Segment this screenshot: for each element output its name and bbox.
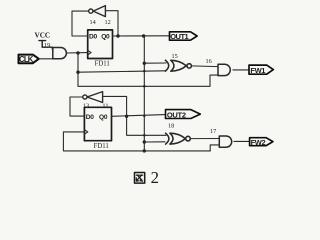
svg-text:VCC: VCC (35, 32, 51, 40)
output port FW2 (250, 138, 273, 146)
crossing blobs (scan ink) (143, 70, 146, 73)
input port CLK (19, 55, 39, 64)
svg-text:17: 17 (210, 128, 216, 135)
wire Q0A to XNOR2 lower input (144, 141, 165, 143)
XNOR gate U8 (pin 18) (166, 133, 191, 144)
wire feedback loop U2 right (106, 11, 119, 36)
wire Q0 column (net Q0A) (143, 36, 145, 151)
wire Q0B down to XNOR2 (127, 116, 166, 135)
svg-text:CLK: CLK (19, 55, 34, 64)
junction Q0B (125, 115, 128, 118)
svg-text:FD11: FD11 (95, 61, 110, 68)
wire Q0A to XNOR1 upper input (144, 62, 166, 64)
wire U9 out to FW2 (234, 140, 250, 142)
XNOR gate U4 (pin 15) (165, 60, 191, 71)
svg-text:13: 13 (83, 103, 89, 110)
inverter U7 (pins 13/11) (83, 92, 103, 103)
flip-flop U6 FD11 (bottom) (84, 107, 111, 140)
wire Q0(U2) to OUT1 (113, 35, 170, 37)
junction Q0A to XNOR2 (143, 140, 146, 143)
svg-text:15: 15 (172, 53, 178, 60)
svg-text:2: 2 (151, 168, 159, 187)
wire clock vertical down (77, 53, 79, 86)
wire feedback loop U2 left (72, 11, 89, 36)
svg-text:18: 18 (168, 123, 174, 130)
output port OUT1 (170, 32, 198, 40)
svg-text:OUT1: OUT1 (170, 32, 188, 41)
wire XNOR2 out to AND9 (net 17) (190, 138, 219, 140)
VCC symbol (39, 41, 52, 50)
junction clock node (76, 51, 79, 54)
clock chevron U2 (88, 50, 91, 55)
svg-text:D0: D0 (86, 114, 94, 121)
svg-text:Q0: Q0 (99, 114, 108, 121)
svg-text:11: 11 (102, 103, 108, 110)
flip-flop U2 FD11 (top) (88, 30, 113, 59)
wire CLK to AND U1 (39, 58, 53, 60)
junction Q0 feedback (116, 34, 119, 37)
inverter U3 (pins 14/12) (89, 6, 106, 17)
svg-text:19: 19 (44, 42, 51, 49)
caption figure 2 glyph (135, 173, 145, 184)
wire feedback loop U6 left (70, 97, 84, 116)
svg-text:12: 12 (105, 19, 111, 26)
AND gate U5 (FW1 gate) (218, 64, 230, 75)
wire Q0(U6) to OUT2 (112, 115, 166, 117)
wire U1 output to FF1 clock (67, 52, 88, 54)
svg-text:D0: D0 (89, 34, 97, 41)
output port FW1 (249, 65, 273, 74)
output port OUT2 (166, 110, 201, 119)
junction Q0A to XNOR1 (143, 62, 146, 65)
AND gate U9 (FW2 gate) (219, 136, 231, 147)
svg-text:Q0: Q0 (101, 34, 110, 41)
clock chevron U6 (84, 130, 87, 135)
svg-text:14: 14 (90, 19, 96, 26)
svg-text:FW1: FW1 (250, 66, 265, 75)
AND gate U1 (clock gate) (53, 48, 67, 59)
wire clock bus to AND2 (78, 75, 218, 86)
wire U5 out to FW1 (233, 69, 249, 71)
wire feedback loop U6 right (103, 96, 127, 116)
wire bus to AND9 lower input (210, 145, 219, 151)
junction Q0A to bottom bus (143, 149, 146, 152)
wire clock to XNOR1 lower input (78, 71, 166, 72)
junction Q0 to column (142, 34, 145, 37)
junction clock to XNOR1 (76, 71, 79, 74)
svg-text:OUT2: OUT2 (167, 110, 186, 119)
svg-text:FD11: FD11 (94, 143, 109, 150)
wire XNOR1 out to AND3 (net 16) (191, 65, 218, 68)
svg-text:16: 16 (206, 58, 212, 65)
wire bottom bus (net Q0A to U6 clock) (63, 132, 210, 151)
svg-text:FW2: FW2 (251, 138, 266, 147)
